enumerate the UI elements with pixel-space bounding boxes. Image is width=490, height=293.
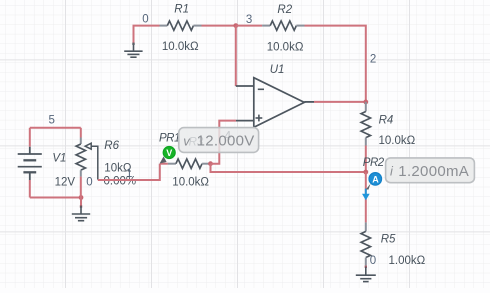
wire: node 3 to R2 left: [236, 25, 262, 27]
wire: R4 bottom to node PR2: [365, 146, 367, 173]
battery V1: [18, 128, 42, 198]
svg-text:1.00kΩ: 1.00kΩ: [389, 255, 426, 267]
svg-text:R1: R1: [174, 4, 189, 16]
node 4 junction dot: [208, 161, 213, 166]
svg-text:0: 0: [142, 14, 148, 26]
R6 wiper arrow and pin: [85, 143, 98, 179]
svg-text:0: 0: [86, 176, 92, 188]
svg-text:PR2: PR2: [363, 157, 385, 169]
svg-text:12.000V: 12.000V: [197, 133, 255, 150]
ground (top-left, net 0): [124, 43, 142, 57]
node 2 junction dot: [363, 100, 368, 105]
potentiometer R6: [80, 128, 82, 138]
svg-text:1.2000mA: 1.2000mA: [398, 163, 469, 180]
pin: U1 inverting input: [236, 85, 254, 87]
svg-text:12V: 12V: [55, 177, 76, 189]
svg-text:R5: R5: [381, 234, 396, 246]
measurement box PR2: [386, 158, 475, 183]
op-amp U1: [254, 78, 304, 128]
svg-text:10.0kΩ: 10.0kΩ: [172, 176, 209, 188]
measurement box PR1: [179, 128, 259, 153]
svg-text:U1: U1: [270, 64, 285, 76]
wire: net 0 ground up to R1 left: [134, 26, 160, 44]
wire: R1 right to node 3: [202, 25, 236, 27]
node 3 junction: [233, 23, 238, 28]
wire: node 4 to U1 non-inverting input: [211, 121, 237, 164]
svg-text:V: V: [166, 148, 172, 158]
ground (under R5): [365, 266, 367, 268]
resistor R1: [160, 21, 202, 30]
resistor R2: [262, 21, 304, 30]
resistor R4: [361, 102, 370, 146]
wire: top rail V1 to R6 (net 5): [30, 127, 81, 129]
svg-text:5: 5: [49, 115, 55, 127]
wire: PR2 node down to R5: [365, 172, 367, 222]
svg-text:0: 0: [370, 255, 376, 267]
wire: R2 right down to node 2: [305, 26, 366, 102]
ground (under pot): [80, 198, 82, 207]
current direction arrow: [362, 189, 370, 201]
pin: U1 non-inverting input: [236, 120, 254, 122]
svg-text:R6: R6: [104, 140, 119, 152]
svg-text:0.00%: 0.00%: [104, 176, 137, 188]
wire: U1 output to node 2 junction: [314, 101, 366, 103]
resistor R3: [160, 163, 168, 165]
node PR2 junction dot: [363, 170, 368, 175]
svg-text:2: 2: [370, 53, 376, 65]
probe PR2 (current, blue): [366, 173, 382, 190]
svg-text:R4: R4: [379, 114, 394, 126]
resistor R5: [361, 222, 370, 266]
wire: node 4 down to PR2 row: [211, 164, 366, 172]
wire: node 3 down to U1 inverting input: [235, 26, 237, 86]
wire: R6 wiper to PR1 corner: [98, 164, 160, 180]
wire: R6 bottom to ground rail (net 0): [80, 177, 82, 198]
svg-text:PR1: PR1: [159, 132, 180, 144]
pin: U1 output: [304, 101, 314, 103]
probe PR1 (voltage, green): [160, 147, 176, 164]
svg-text:3: 3: [246, 14, 252, 26]
junction dot at ground rail: [79, 195, 84, 200]
wire: bottom rail V1 to ground junction: [30, 197, 81, 199]
svg-text:10.0kΩ: 10.0kΩ: [267, 42, 304, 54]
svg-text:A: A: [372, 174, 379, 184]
svg-text:R2: R2: [277, 4, 292, 16]
svg-text:V1: V1: [52, 153, 66, 165]
svg-text:10.0kΩ: 10.0kΩ: [379, 135, 416, 147]
svg-text:10.0kΩ: 10.0kΩ: [162, 41, 199, 53]
